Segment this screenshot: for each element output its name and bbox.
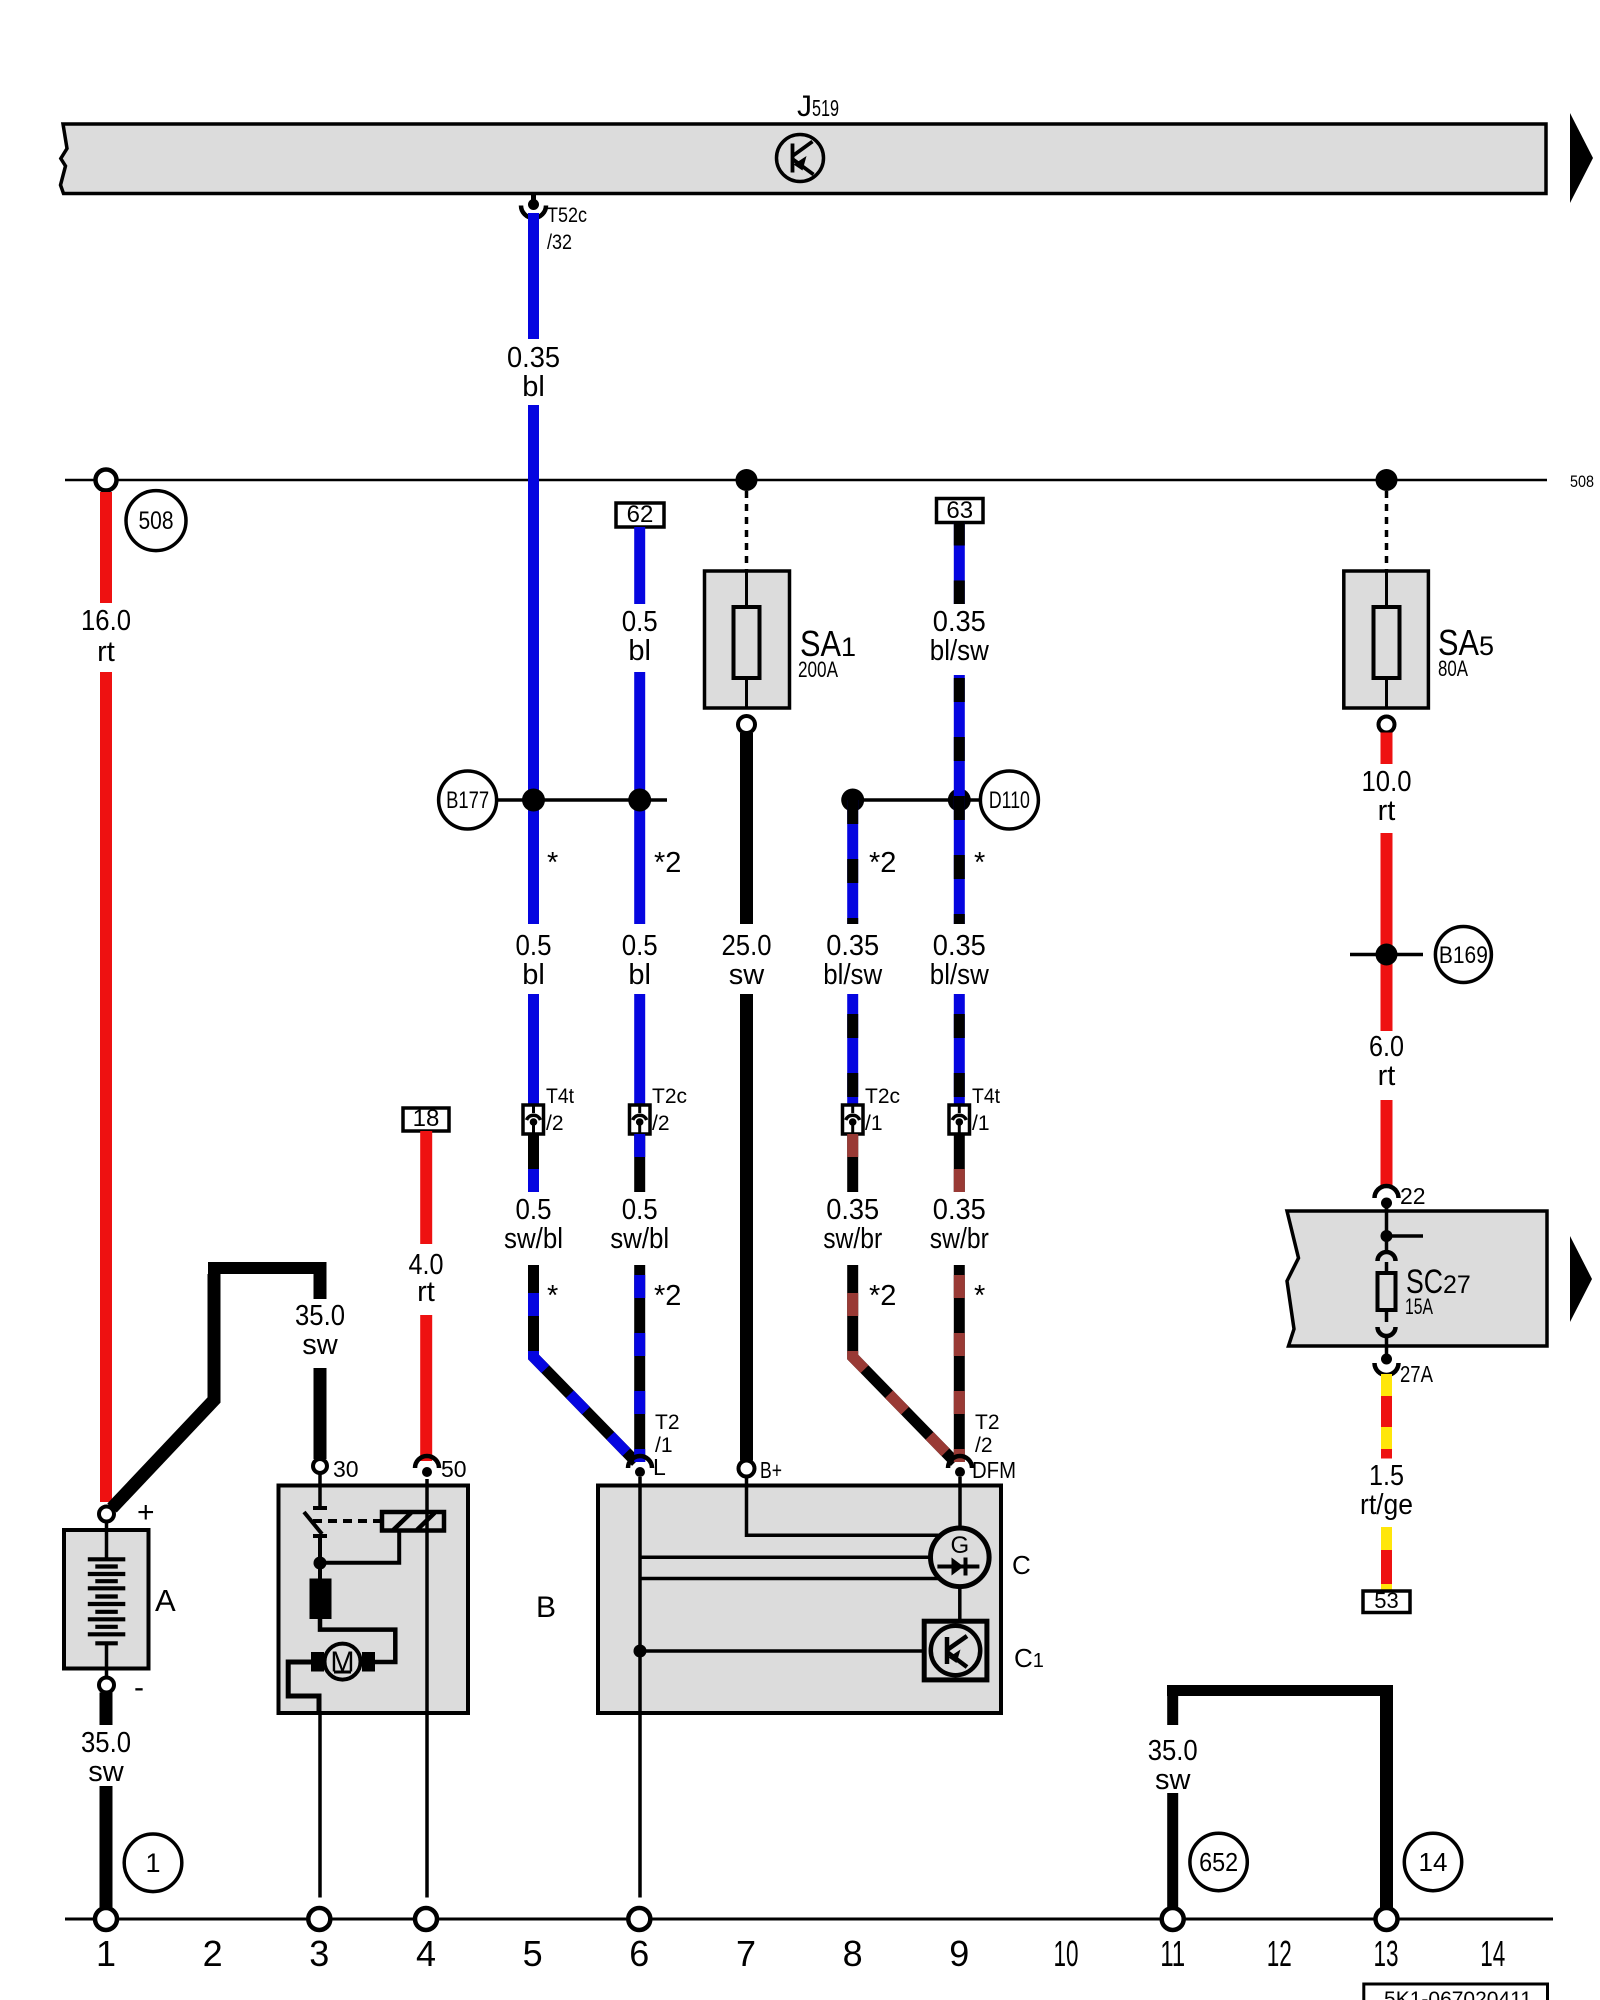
svg-text:4: 4 — [416, 1933, 436, 1974]
svg-text:sw/br: sw/br — [823, 1223, 882, 1255]
svg-text:27A: 27A — [1400, 1361, 1434, 1387]
svg-text:0.35: 0.35 — [933, 606, 986, 638]
svg-text:35.0: 35.0 — [1148, 1735, 1198, 1767]
svg-text:C1: C1 — [1014, 1643, 1044, 1673]
svg-text:*2: *2 — [869, 1280, 896, 1312]
svg-text:rt: rt — [97, 636, 115, 668]
svg-text:18: 18 — [413, 1105, 440, 1132]
svg-text:B+: B+ — [760, 1457, 782, 1483]
svg-text:T4t: T4t — [972, 1085, 1000, 1108]
svg-text:35.0: 35.0 — [295, 1300, 345, 1332]
svg-text:0.35: 0.35 — [826, 1194, 879, 1226]
svg-text:6: 6 — [629, 1933, 649, 1974]
svg-text:sw/bl: sw/bl — [504, 1223, 563, 1255]
svg-text:L: L — [653, 1454, 666, 1480]
svg-text:12: 12 — [1267, 1933, 1292, 1974]
svg-text:2: 2 — [203, 1933, 223, 1974]
svg-text:1: 1 — [96, 1933, 116, 1974]
svg-text:*: * — [547, 1280, 558, 1312]
svg-text:B: B — [536, 1591, 556, 1624]
svg-text:bl: bl — [522, 371, 545, 403]
svg-text:7: 7 — [736, 1933, 756, 1974]
svg-text:0.5: 0.5 — [622, 606, 658, 638]
svg-text:bl: bl — [628, 959, 651, 991]
svg-text:bl: bl — [628, 635, 651, 667]
svg-text:sw: sw — [302, 1329, 339, 1361]
svg-text:DFM: DFM — [972, 1457, 1016, 1483]
svg-text:sw: sw — [729, 959, 766, 991]
svg-text:0.5: 0.5 — [622, 1194, 658, 1226]
svg-text:bl: bl — [522, 959, 545, 991]
svg-text:/2: /2 — [652, 1112, 670, 1135]
svg-text:53: 53 — [1374, 1588, 1398, 1613]
svg-text:5K1-067020411: 5K1-067020411 — [1384, 1988, 1532, 2000]
svg-text:*: * — [974, 847, 985, 879]
svg-text:sw/br: sw/br — [930, 1223, 989, 1255]
svg-text:50: 50 — [441, 1456, 467, 1482]
svg-text:-: - — [134, 1671, 144, 1704]
svg-text:508: 508 — [139, 507, 174, 535]
svg-text:25.0: 25.0 — [722, 930, 772, 962]
svg-text:0.5: 0.5 — [622, 930, 658, 962]
svg-text:*: * — [974, 1280, 985, 1312]
svg-text:16.0: 16.0 — [81, 605, 131, 637]
svg-text:0.35: 0.35 — [507, 342, 560, 374]
svg-text:J519: J519 — [797, 90, 839, 123]
svg-text:62: 62 — [627, 501, 654, 528]
svg-text:T2c: T2c — [865, 1085, 900, 1108]
svg-text:0.35: 0.35 — [826, 930, 879, 962]
svg-text:14: 14 — [1480, 1933, 1505, 1974]
svg-text:/32: /32 — [547, 231, 572, 254]
svg-text:508: 508 — [1570, 473, 1594, 491]
svg-text:sw: sw — [1155, 1764, 1192, 1796]
svg-text:6.0: 6.0 — [1369, 1031, 1404, 1063]
svg-text:0.35: 0.35 — [933, 1194, 986, 1226]
svg-text:22: 22 — [1400, 1183, 1426, 1209]
svg-text:+: + — [137, 1496, 155, 1529]
svg-text:rt: rt — [1378, 1060, 1396, 1092]
svg-text:3: 3 — [309, 1933, 329, 1974]
svg-text:A: A — [155, 1583, 176, 1618]
svg-text:T52c: T52c — [547, 204, 587, 227]
svg-text:14: 14 — [1419, 1847, 1448, 1877]
svg-text:*: * — [547, 847, 558, 879]
svg-text:/2: /2 — [546, 1112, 564, 1135]
svg-text:13: 13 — [1374, 1933, 1399, 1974]
svg-text:0.35: 0.35 — [933, 930, 986, 962]
svg-text:652: 652 — [1199, 1847, 1238, 1877]
svg-text:1.5: 1.5 — [1369, 1460, 1404, 1492]
svg-text:9: 9 — [949, 1933, 969, 1974]
svg-text:M: M — [330, 1647, 354, 1679]
svg-text:rt: rt — [417, 1276, 435, 1308]
svg-text:0.5: 0.5 — [516, 930, 552, 962]
svg-text:/2: /2 — [975, 1434, 993, 1457]
svg-text:30: 30 — [333, 1456, 359, 1482]
svg-text:bl/sw: bl/sw — [930, 635, 990, 667]
svg-text:T2c: T2c — [652, 1085, 687, 1108]
svg-text:80A: 80A — [1438, 656, 1468, 681]
svg-text:*2: *2 — [654, 847, 681, 879]
svg-text:*2: *2 — [654, 1280, 681, 1312]
svg-text:B169: B169 — [1439, 942, 1488, 969]
svg-text:*2: *2 — [869, 847, 896, 879]
svg-text:10: 10 — [1054, 1933, 1079, 1974]
svg-text:/1: /1 — [972, 1112, 990, 1135]
svg-text:rt: rt — [1378, 795, 1396, 827]
svg-text:15A: 15A — [1405, 1294, 1433, 1319]
svg-text:G: G — [950, 1532, 969, 1559]
svg-text:35.0: 35.0 — [81, 1727, 131, 1759]
svg-text:5: 5 — [523, 1933, 543, 1974]
svg-text:C: C — [1012, 1550, 1031, 1580]
svg-text:D110: D110 — [989, 787, 1030, 814]
svg-text:/1: /1 — [865, 1112, 883, 1135]
svg-text:T2: T2 — [655, 1411, 680, 1434]
svg-text:B177: B177 — [446, 787, 489, 814]
svg-text:bl/sw: bl/sw — [823, 959, 883, 991]
svg-text:rt/ge: rt/ge — [1360, 1489, 1413, 1521]
svg-text:T4t: T4t — [546, 1085, 574, 1108]
svg-text:11: 11 — [1160, 1933, 1185, 1974]
svg-text:8: 8 — [843, 1933, 863, 1974]
svg-text:0.5: 0.5 — [516, 1194, 552, 1226]
svg-text:63: 63 — [946, 497, 973, 524]
svg-text:sw/bl: sw/bl — [610, 1223, 669, 1255]
svg-text:200A: 200A — [798, 657, 838, 682]
svg-text:10.0: 10.0 — [1362, 766, 1412, 798]
svg-text:1: 1 — [145, 1848, 160, 1878]
svg-text:T2: T2 — [975, 1411, 1000, 1434]
svg-text:sw: sw — [88, 1756, 125, 1788]
svg-text:bl/sw: bl/sw — [930, 959, 990, 991]
